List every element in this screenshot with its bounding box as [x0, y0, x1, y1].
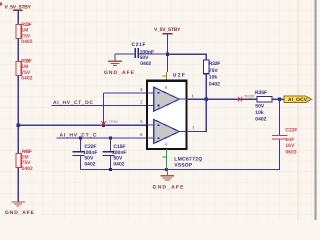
wire	[17, 75, 19, 153]
junction pin5 tap	[102, 124, 105, 127]
no-erc marker	[101, 121, 106, 126]
svg-text:GND_AFE: GND_AFE	[5, 210, 35, 216]
svg-text:U2F: U2F	[173, 72, 185, 78]
wire R32F to output	[205, 74, 207, 100]
svg-text:10k: 10k	[255, 110, 264, 116]
junction	[17, 124, 20, 127]
junction output node	[205, 98, 208, 101]
svg-text:0402: 0402	[21, 39, 32, 45]
svg-text:C21F: C21F	[132, 42, 146, 48]
op-amp U2F hidden power pin (top)	[163, 72, 167, 81]
wire output pin1	[187, 98, 258, 100]
svg-text:0402: 0402	[255, 117, 266, 123]
wire C23F to rail	[278, 140, 281, 170]
wire R35F to port	[272, 98, 284, 100]
svg-text:0402: 0402	[209, 81, 220, 87]
svg-text:VSSOP: VSSOP	[174, 163, 193, 169]
svg-text:R32F: R32F	[209, 61, 221, 67]
svg-text:10k: 10k	[209, 75, 218, 81]
resistor R33F	[16, 22, 33, 45]
svg-text:0603: 0603	[285, 149, 296, 155]
svg-text:AI_HV_CT_DC: AI_HV_CT_DC	[53, 100, 93, 106]
wire vertical pin3 to pin5	[102, 93, 104, 125]
wire pin6 net	[57, 137, 148, 139]
resistor R32F	[204, 60, 221, 87]
svg-text:0402: 0402	[84, 162, 95, 168]
svg-text:R35F: R35F	[255, 90, 267, 96]
sheet inner margin line	[298, 0, 299, 220]
sheet corner mark	[0, 3, 2, 6]
wire	[17, 38, 19, 61]
svg-text:GND_AFE: GND_AFE	[104, 70, 135, 76]
svg-text:V_5V_STBY: V_5V_STBY	[154, 27, 181, 33]
junction C22F tap	[79, 136, 82, 139]
junction opamp V- to rail	[165, 168, 168, 171]
sheet border	[315, 0, 317, 220]
capacitor C22F	[73, 138, 98, 170]
junction C15F tap	[109, 136, 112, 139]
ground GND_AFE (bottom left)	[5, 202, 35, 216]
svg-text:1nF: 1nF	[285, 137, 294, 143]
wire pin3	[103, 92, 147, 94]
svg-text:0402: 0402	[113, 162, 124, 168]
ground GND_AFE (middle)	[153, 169, 185, 190]
wire output pin7	[187, 99, 207, 131]
op-amp hidden power pin (bottom)	[163, 149, 167, 169]
svg-text:AI_OCV: AI_OCV	[288, 97, 308, 103]
junction C23F tap	[278, 98, 281, 101]
ground GND_AFE (under C21F)	[104, 54, 135, 76]
svg-text:75V: 75V	[209, 68, 219, 74]
svg-text:0402: 0402	[22, 166, 33, 172]
wire	[17, 167, 19, 201]
comparator A triangle	[154, 87, 180, 111]
wire pin5 net	[18, 124, 147, 126]
capacitor C21F	[115, 42, 167, 67]
capacitor C15F	[103, 138, 127, 170]
svg-text:16V: 16V	[285, 143, 295, 149]
resistor R48F	[16, 149, 33, 172]
wire power to R32F	[167, 54, 206, 60]
svg-text:50V: 50V	[255, 103, 265, 109]
comparator B triangle	[154, 120, 180, 144]
svg-text:TP3H: TP3H	[109, 120, 119, 124]
svg-text:LMC6772Q: LMC6772Q	[174, 156, 202, 162]
svg-text:0402: 0402	[140, 61, 151, 67]
capacitor C23F	[272, 128, 297, 156]
wire pin2 net	[52, 105, 148, 107]
junction power node	[166, 53, 169, 56]
svg-text:GND_AFE: GND_AFE	[153, 185, 185, 191]
svg-text:7F22F: 7F22F	[244, 94, 255, 98]
svg-text:C23F: C23F	[285, 128, 297, 134]
wire ground rail	[81, 168, 280, 170]
op-amp U2F body	[147, 81, 187, 149]
resistor R39F	[16, 59, 33, 82]
power V_5V_STBY (middle)	[154, 27, 181, 72]
svg-text:0402: 0402	[21, 76, 32, 82]
no-erc marker output	[238, 97, 243, 102]
wire to C23F	[279, 99, 281, 135]
resistor R35F	[255, 90, 272, 123]
junction C15F to rail	[109, 168, 112, 171]
port AI_OCV	[284, 96, 312, 103]
power V_5V_STBY (left)	[5, 5, 32, 25]
